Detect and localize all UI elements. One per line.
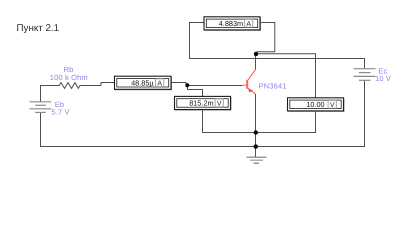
svg-text:V: V	[217, 101, 222, 108]
svg-text:V: V	[330, 102, 335, 109]
svg-text:48.85µ: 48.85µ	[131, 79, 154, 88]
svg-text:Пункт 2.1: Пункт 2.1	[17, 23, 60, 34]
svg-text:A: A	[246, 21, 251, 28]
svg-text:A: A	[157, 81, 162, 88]
svg-text:100 k Ohm: 100 k Ohm	[50, 73, 88, 82]
svg-text:5.7 V: 5.7 V	[51, 108, 69, 117]
svg-text:10 V: 10 V	[375, 74, 391, 83]
svg-text:815.2m: 815.2m	[189, 99, 213, 108]
svg-text:4.883m: 4.883m	[219, 19, 243, 28]
svg-text:PN3641: PN3641	[259, 81, 287, 90]
svg-text:10.00: 10.00	[306, 100, 324, 109]
